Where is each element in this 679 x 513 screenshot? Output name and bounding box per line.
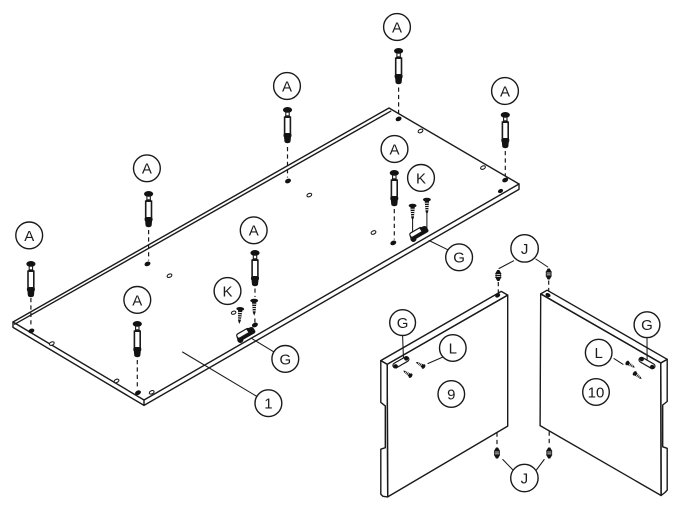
- guide line screw1: [412, 220, 414, 237]
- dashed line A3: [504, 151, 506, 177]
- svg-text:L: L: [595, 345, 603, 362]
- label A6: [240, 217, 267, 244]
- hole (open) pair mid: [306, 193, 312, 198]
- panel 1 top face: [13, 108, 519, 405]
- label K right: [408, 165, 435, 192]
- washer near left K: [231, 311, 236, 315]
- hole (open) left edge: [49, 341, 55, 346]
- svg-text:A: A: [282, 78, 292, 95]
- label L9: [440, 335, 467, 362]
- svg-text:G: G: [279, 351, 291, 368]
- panel 9 top edge band: [381, 291, 508, 364]
- leader G9: [402, 336, 405, 360]
- bracket G on panel 9: [392, 355, 410, 369]
- bracket G on panel 1 left: [234, 326, 257, 345]
- svg-text:J: J: [521, 470, 529, 487]
- L screw 2 on panel 9: [402, 369, 413, 379]
- svg-text:G: G: [641, 317, 653, 334]
- svg-text:9: 9: [447, 386, 455, 403]
- dashed line A6 lower: [254, 319, 256, 323]
- hole (open) right of bottom corner: [149, 390, 155, 395]
- label A4: [134, 155, 161, 182]
- groove line along back edge of panel 1: [15, 111, 391, 324]
- left K screw 1: [235, 307, 244, 325]
- hole (filled) near left corner: [28, 328, 35, 335]
- svg-text:1: 1: [264, 396, 272, 413]
- bracket G on panel 10: [638, 356, 656, 370]
- dashed line A2: [287, 147, 289, 178]
- label A3: [492, 78, 519, 105]
- label L10: [585, 339, 612, 366]
- svg-text:A: A: [24, 228, 34, 245]
- svg-text:A: A: [142, 161, 152, 178]
- svg-text:K: K: [222, 283, 232, 300]
- dashed line A4: [148, 230, 150, 261]
- cam bolt A4: [144, 191, 153, 227]
- hole (filled) on panel 9 top edge: [494, 293, 501, 299]
- right K screw 2: [423, 198, 431, 215]
- hole (filled) near top corner: [395, 116, 402, 123]
- hole (filled) near right corner: [501, 177, 508, 184]
- dashed line A7: [30, 298, 32, 328]
- hole (filled) left K assembly: [251, 322, 258, 329]
- right K screw 1: [409, 204, 417, 221]
- L screw 1 on panel 10: [625, 360, 637, 370]
- svg-text:10: 10: [588, 384, 605, 401]
- svg-text:G: G: [397, 315, 409, 332]
- left K screw 2: [250, 299, 258, 316]
- panel 1 thickness band: [13, 184, 519, 405]
- cam bolt A5: [390, 170, 399, 206]
- label 9: [438, 381, 465, 408]
- svg-text:K: K: [416, 170, 426, 187]
- hole (filled) for right K assembly: [390, 240, 397, 247]
- dashed line dowel J top-right: [548, 281, 550, 292]
- label A1: [384, 14, 411, 41]
- svg-text:A: A: [500, 83, 510, 100]
- hole (filled) near bottom corner: [134, 389, 141, 396]
- svg-text:A: A: [249, 223, 259, 240]
- L screw 1 on panel 9: [415, 360, 427, 370]
- svg-text:A: A: [132, 292, 142, 309]
- label A7: [16, 222, 43, 249]
- dashed line dowel J top-left: [497, 282, 499, 293]
- dowel J top-right: [546, 269, 552, 280]
- label 1: [255, 390, 282, 417]
- hole (open) right edge: [480, 165, 486, 170]
- label J top: [511, 235, 538, 262]
- dashed line A5: [393, 209, 395, 240]
- dowel J bottom-right: [546, 448, 552, 459]
- hole (open) center right: [371, 230, 377, 235]
- guide line screw2: [426, 214, 428, 230]
- hole (filled) upper-left row mid: [284, 178, 291, 185]
- dashed line A8: [136, 360, 138, 390]
- label A2: [274, 73, 301, 100]
- label J bottom: [511, 464, 538, 491]
- L screw 2 on panel 10: [632, 370, 643, 380]
- label G right on panel 1: [446, 244, 473, 271]
- hole (filled) lower-right row near corner: [497, 188, 504, 194]
- cam bolt A8: [133, 321, 142, 357]
- leader L9: [428, 357, 443, 364]
- panel 9 face: [387, 295, 508, 497]
- bracket G on panel 1 right: [407, 225, 430, 244]
- hole (open) left edge lower: [114, 378, 120, 383]
- svg-text:G: G: [453, 250, 465, 267]
- cam bolt A3: [501, 112, 510, 148]
- leader J bottom to left dowel: [503, 460, 513, 471]
- hole (open) top edge: [418, 128, 424, 133]
- leader G10: [646, 338, 648, 362]
- dowel J top-left: [495, 270, 501, 281]
- svg-text:L: L: [449, 340, 457, 357]
- label G9: [390, 310, 416, 336]
- dowel J bottom-left: [494, 448, 500, 459]
- cam bolt A6: [250, 250, 259, 286]
- dashed line dowel J bottom-right: [548, 432, 550, 447]
- label G10: [634, 312, 660, 338]
- label G left on panel 1: [272, 346, 299, 373]
- dashed line A6 upper: [254, 289, 256, 298]
- panel 9 left edge band with notch: [381, 361, 388, 497]
- hole (filled) on panel 10 top edge: [545, 292, 552, 298]
- label K left: [214, 278, 241, 305]
- hole (filled) upper-left row: [144, 261, 151, 268]
- leader to G circle left: [251, 338, 274, 352]
- dashed line dowel J bottom-left: [496, 433, 498, 447]
- svg-text:A: A: [392, 19, 402, 36]
- cam bolt A1: [394, 48, 403, 84]
- dashed line A1: [398, 88, 400, 116]
- leader to G circle right: [429, 241, 449, 251]
- leader J bottom to right dowel: [536, 460, 544, 471]
- leader J top to right dowel: [536, 259, 548, 267]
- svg-text:J: J: [521, 241, 529, 258]
- svg-text:A: A: [389, 141, 399, 158]
- leader J top to left dowel: [499, 261, 514, 269]
- cam bolt A7: [26, 261, 35, 297]
- leader L10: [614, 359, 623, 365]
- label A5: [381, 136, 408, 163]
- panel 10 face: [540, 294, 661, 496]
- hole (open) pair: [167, 273, 173, 278]
- leader for part 1 label: [183, 352, 258, 397]
- cam bolt A2: [283, 107, 292, 143]
- panel 10 right edge band with notch: [661, 359, 667, 495]
- panel 10 top edge band: [541, 290, 668, 363]
- label A8: [124, 287, 151, 314]
- label 10: [583, 379, 610, 406]
